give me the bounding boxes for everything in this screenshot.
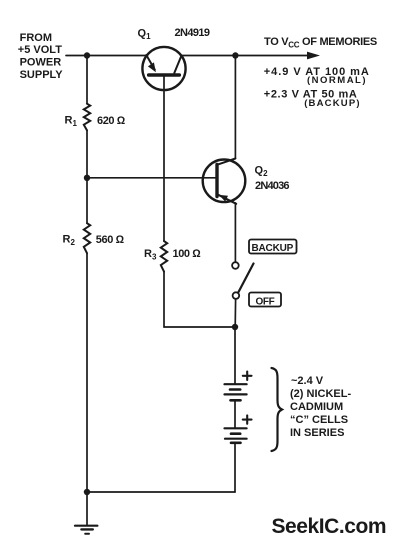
svg-text:(BACKUP): (BACKUP) (304, 98, 361, 109)
svg-text:620 Ω: 620 Ω (97, 115, 126, 127)
svg-text:CADMIUM: CADMIUM (290, 401, 343, 413)
svg-text:(NORMAL): (NORMAL) (307, 75, 367, 86)
svg-text:100 Ω: 100 Ω (173, 248, 202, 260)
svg-text:BACKUP: BACKUP (252, 243, 294, 254)
svg-text:“C” CELLS: “C” CELLS (290, 414, 348, 426)
svg-text:2N4919: 2N4919 (175, 27, 210, 39)
svg-text:POWER: POWER (20, 57, 62, 69)
svg-text:560 Ω: 560 Ω (96, 234, 125, 246)
svg-text:SeekIC.com: SeekIC.com (272, 515, 387, 538)
svg-text:IN SERIES: IN SERIES (290, 427, 344, 439)
svg-text:FROM: FROM (20, 32, 52, 44)
svg-text:OFF: OFF (256, 296, 275, 307)
svg-text:+5 VOLT: +5 VOLT (18, 44, 62, 56)
svg-text:SUPPLY: SUPPLY (20, 69, 64, 81)
svg-text:(2) NICKEL-: (2) NICKEL- (290, 388, 351, 400)
svg-text:~2.4 V: ~2.4 V (291, 375, 324, 387)
svg-text:TO VCC OF MEMORIES: TO VCC OF MEMORIES (264, 36, 377, 50)
svg-text:2N4036: 2N4036 (255, 180, 289, 192)
